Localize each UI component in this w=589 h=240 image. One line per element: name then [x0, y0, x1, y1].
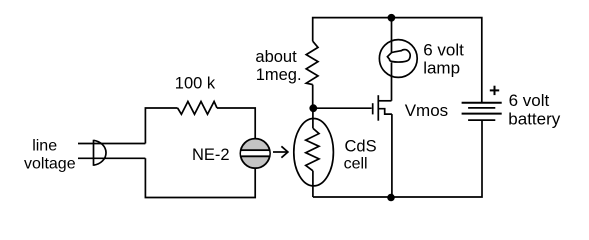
- wire gate node down into CdS cell: [312, 108, 314, 128]
- svg-text:lamp: lamp: [423, 58, 460, 77]
- wire left-loop top-left vertical: [145, 108, 177, 144]
- lamp filament blob: [387, 50, 410, 62]
- svg-text:line: line: [32, 138, 57, 155]
- resistor R1 100 k: [178, 102, 217, 115]
- label "6 volt lamp": [423, 41, 464, 78]
- photoresistor CdS cell (ellipse): [294, 119, 334, 186]
- battery B1 6 volt: [462, 103, 502, 120]
- svg-text:NE-2: NE-2: [192, 146, 230, 164]
- wire from R2 to gate node: [312, 85, 314, 109]
- wire left-loop bottom-left vertical: [145, 158, 255, 197]
- label "line voltage": [24, 138, 76, 173]
- label "CdS cell": [344, 138, 377, 173]
- transistor Q1 Vmos (power MOSFET): [373, 95, 392, 121]
- svg-text:cell: cell: [344, 155, 368, 172]
- node gate junction dot: [309, 104, 317, 112]
- wire MOSFET source down to bottom rail: [391, 114, 393, 197]
- svg-text:Vmos: Vmos: [405, 101, 448, 120]
- neon lamp NE-2: [239, 139, 271, 169]
- plug P1 (AC line plug body): [94, 140, 107, 166]
- wire top rail down into lamp: [391, 18, 393, 52]
- svg-text:CdS: CdS: [345, 138, 377, 156]
- node source/bottom-rail junction dot: [387, 194, 395, 202]
- svg-text:100 k: 100 k: [175, 74, 216, 92]
- wire bottom prong of plug: [78, 157, 145, 159]
- wire gate node to MOSFET gate: [313, 107, 372, 109]
- svg-text:6 volt: 6 volt: [423, 41, 464, 60]
- wire bottom rail: [313, 120, 482, 197]
- battery plus sign: [490, 86, 499, 95]
- arrow (light from NE-2 to CdS cell): [273, 146, 288, 157]
- svg-text:6 volt: 6 volt: [509, 91, 550, 110]
- svg-text:voltage: voltage: [24, 156, 76, 173]
- resistor R2 about 1meg (vertical): [306, 41, 318, 84]
- svg-text:battery: battery: [508, 110, 560, 129]
- label "about 1meg.": [255, 48, 301, 84]
- wire MOSFET drain up to lamp: [391, 63, 393, 101]
- wire CdS bottom to bottom rail: [312, 171, 314, 197]
- svg-text:1meg.: 1meg.: [256, 66, 302, 84]
- svg-text:about: about: [255, 48, 297, 66]
- resistor zigzag inside CdS cell: [306, 128, 319, 171]
- node top-rail junction dot: [388, 14, 396, 22]
- label "6 volt battery": [508, 91, 560, 129]
- wire top prong of plug: [78, 143, 145, 145]
- wire left-loop top-right corner to NE-2 top: [217, 108, 255, 139]
- wire top rail: [313, 18, 482, 103]
- lamp L1 6 volt (circle): [379, 40, 417, 78]
